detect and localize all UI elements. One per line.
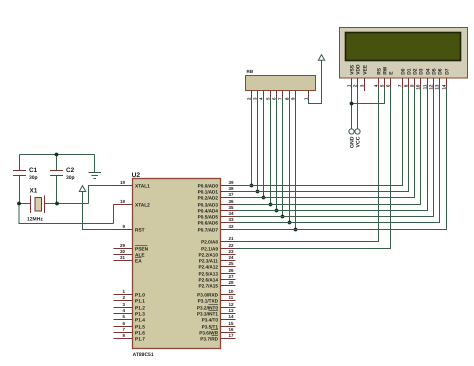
svg-text:30p: 30p xyxy=(29,175,38,181)
wire respack common to VCC xyxy=(309,60,322,103)
svg-text:P2.7/A15: P2.7/A15 xyxy=(198,283,218,288)
resistor pack RB xyxy=(246,76,316,91)
svg-text:12: 12 xyxy=(428,84,433,90)
svg-text:31: 31 xyxy=(120,255,126,260)
node respack pin 6 / P0.4 xyxy=(275,209,279,213)
crystal X1 xyxy=(27,188,45,223)
wire C2 stems xyxy=(56,155,58,171)
svg-text:C1: C1 xyxy=(29,167,38,174)
LCD screen xyxy=(346,33,461,61)
wire XTAL1 route xyxy=(89,186,114,204)
wire VSS to GND terminal xyxy=(351,88,353,129)
svg-text:11: 11 xyxy=(229,295,234,300)
chip left pin numbers xyxy=(120,180,126,338)
svg-text:13: 13 xyxy=(434,84,439,90)
svg-text:16: 16 xyxy=(229,327,235,332)
microcontroller U2 AT89C51 xyxy=(133,179,221,349)
svg-text:10: 10 xyxy=(415,84,420,90)
svg-text:D1: D1 xyxy=(406,68,412,75)
svg-text:P3.0/RXD: P3.0/RXD xyxy=(197,292,218,297)
svg-text:7: 7 xyxy=(397,84,402,87)
svg-text:P3.4/T0: P3.4/T0 xyxy=(202,317,219,322)
svg-text:C2: C2 xyxy=(66,167,75,174)
svg-text:P0.6/AD6: P0.6/AD6 xyxy=(198,220,219,225)
svg-text:P2.6/A14: P2.6/A14 xyxy=(198,277,218,282)
svg-text:37: 37 xyxy=(229,192,235,197)
respack pin numbers xyxy=(246,97,308,100)
svg-text:P0.3/AD3: P0.3/AD3 xyxy=(198,202,219,207)
capacitor C1 xyxy=(13,167,38,181)
svg-text:32: 32 xyxy=(229,224,235,229)
svg-text:D4: D4 xyxy=(425,68,431,75)
svg-text:AT89C51: AT89C51 xyxy=(133,352,154,358)
svg-text:P3.5/T1: P3.5/T1 xyxy=(202,324,219,329)
node C2 top xyxy=(55,153,59,157)
svg-text:14: 14 xyxy=(229,314,235,319)
svg-text:P0.4/AD4: P0.4/AD4 xyxy=(198,208,219,213)
wire C1 stems xyxy=(19,155,21,171)
svg-text:3: 3 xyxy=(359,84,364,87)
svg-text:4: 4 xyxy=(373,84,378,87)
svg-text:13: 13 xyxy=(229,308,235,313)
svg-text:RW: RW xyxy=(382,66,388,74)
svg-text:P2.0/A8: P2.0/A8 xyxy=(201,239,218,244)
svg-text:8: 8 xyxy=(403,84,408,87)
svg-text:D0: D0 xyxy=(400,68,406,75)
svg-text:15: 15 xyxy=(229,321,235,326)
wire RST route xyxy=(83,192,114,230)
respack wires to P0 bus xyxy=(252,60,322,229)
svg-text:12MHz: 12MHz xyxy=(27,217,43,223)
svg-text:25: 25 xyxy=(229,261,235,266)
wire D0 to P0.0 xyxy=(236,88,403,186)
wire D7 to P0.7 xyxy=(236,88,447,230)
svg-text:D3: D3 xyxy=(418,68,424,75)
node respack pin 5 / P0.3 xyxy=(269,203,273,207)
chip left pin stubs xyxy=(114,186,133,339)
svg-text:30: 30 xyxy=(120,249,126,254)
svg-text:P1.6: P1.6 xyxy=(135,330,145,336)
node respack pin 3 / P0.1 xyxy=(256,190,260,194)
svg-text:RB: RB xyxy=(247,69,254,74)
svg-text:RS: RS xyxy=(376,67,382,75)
svg-text:P2.5/A13: P2.5/A13 xyxy=(198,271,218,276)
chip right pin stubs xyxy=(221,186,236,339)
node respack pin 4 / P0.2 xyxy=(262,196,266,200)
power arrow (RST pull-up) xyxy=(79,186,85,192)
svg-text:P3.6/WR: P3.6/WR xyxy=(199,330,218,335)
wire D2 to P0.2 xyxy=(236,88,415,198)
svg-text:P2.4/A12: P2.4/A12 xyxy=(198,264,218,269)
svg-text:RST: RST xyxy=(135,227,145,233)
svg-text:P2.2/A10: P2.2/A10 xyxy=(198,252,218,257)
node crystal right xyxy=(55,202,59,206)
svg-text:35: 35 xyxy=(229,205,235,210)
svg-text:36: 36 xyxy=(229,199,235,204)
svg-text:D5: D5 xyxy=(431,68,437,75)
svg-text:12: 12 xyxy=(229,302,235,307)
svg-text:18: 18 xyxy=(120,199,126,204)
svg-text:VEE: VEE xyxy=(362,64,368,75)
wire XTAL2 route xyxy=(19,204,114,224)
LCD module LM016L body xyxy=(340,28,468,79)
svg-text:29: 29 xyxy=(120,243,126,248)
svg-text:P3.2/INT0: P3.2/INT0 xyxy=(197,305,218,310)
svg-text:14: 14 xyxy=(441,84,446,90)
svg-text:VSS: VSS xyxy=(349,64,355,75)
svg-text:P1.7: P1.7 xyxy=(135,336,145,342)
svg-text:17: 17 xyxy=(229,333,235,338)
svg-text:XTAL1: XTAL1 xyxy=(135,183,150,189)
svg-text:38: 38 xyxy=(229,186,235,191)
node crystal left xyxy=(17,202,21,206)
power arrow (respack VCC) xyxy=(318,55,324,61)
svg-text:23: 23 xyxy=(229,249,235,254)
svg-text:5: 5 xyxy=(379,84,384,87)
wire D5 to P0.5 xyxy=(236,88,434,217)
wire D6 to P0.6 xyxy=(236,88,440,223)
ground xyxy=(89,155,102,179)
svg-text:33: 33 xyxy=(229,217,235,222)
svg-text:11: 11 xyxy=(422,84,427,89)
svg-text:P2.1/A9: P2.1/A9 xyxy=(201,246,218,251)
wire D4 to P0.4 xyxy=(236,88,428,211)
svg-text:P0.2/AD2: P0.2/AD2 xyxy=(198,195,219,200)
node respack pin 2 / P0.0 xyxy=(250,184,254,188)
chip right pin numbers xyxy=(229,180,235,338)
svg-text:P1.1: P1.1 xyxy=(135,298,145,304)
svg-text:6: 6 xyxy=(385,84,390,87)
svg-text:P3.3/INT1: P3.3/INT1 xyxy=(197,311,218,316)
svg-text:9: 9 xyxy=(409,84,414,87)
node respack pin 7 / P0.5 xyxy=(281,215,285,219)
svg-text:26: 26 xyxy=(229,268,235,273)
capacitor C2 xyxy=(50,167,75,181)
node RW/VSS junction xyxy=(350,102,354,106)
svg-text:VCC: VCC xyxy=(356,136,362,147)
wire D1 to P0.1 xyxy=(236,88,409,192)
terminal GND xyxy=(349,129,356,148)
svg-text:P0.0/AD0: P0.0/AD0 xyxy=(198,183,219,188)
terminal VCC xyxy=(355,129,362,148)
wire top rail xyxy=(20,154,95,156)
svg-text:D6: D6 xyxy=(437,68,443,75)
svg-text:P1.2: P1.2 xyxy=(135,305,145,311)
svg-text:EA: EA xyxy=(135,258,142,264)
svg-text:1: 1 xyxy=(346,84,351,87)
LCD pin numbers xyxy=(346,84,446,90)
svg-text:28: 28 xyxy=(229,280,235,285)
svg-text:U2: U2 xyxy=(132,172,141,179)
wire RS to P2.0 xyxy=(236,88,379,242)
wire crystal row xyxy=(19,203,31,205)
svg-text:24: 24 xyxy=(229,255,235,260)
wire D3 to P0.3 xyxy=(236,88,421,205)
LCD wires xyxy=(236,88,447,249)
svg-text:P1.5: P1.5 xyxy=(135,324,145,330)
svg-text:34: 34 xyxy=(229,211,235,216)
svg-text:P3.1/TXD: P3.1/TXD xyxy=(198,298,219,303)
svg-text:P0.5/AD5: P0.5/AD5 xyxy=(198,214,219,219)
respack pin stubs xyxy=(252,91,309,98)
node respack pin 8 / P0.6 xyxy=(288,221,292,225)
svg-text:27: 27 xyxy=(229,274,235,279)
svg-text:P1.3: P1.3 xyxy=(135,311,145,317)
svg-text:19: 19 xyxy=(120,180,126,185)
chip left pin names xyxy=(135,183,150,342)
svg-text:22: 22 xyxy=(229,243,235,248)
svg-text:P1.4: P1.4 xyxy=(135,317,145,323)
svg-text:P3.7/RD: P3.7/RD xyxy=(200,336,218,341)
svg-text:XTAL2: XTAL2 xyxy=(135,202,150,208)
LCD pin names xyxy=(349,64,450,75)
LCD pin stubs xyxy=(352,78,447,91)
svg-text:30p: 30p xyxy=(66,175,75,181)
svg-text:P2.3/A11: P2.3/A11 xyxy=(199,258,219,263)
svg-text:D7: D7 xyxy=(444,68,450,75)
chip right pin names xyxy=(197,183,219,341)
overlines PSEN EA xyxy=(135,246,148,258)
overlines INT0 INT1 WR RD xyxy=(209,305,219,336)
svg-text:2: 2 xyxy=(352,84,357,87)
svg-text:P1.0: P1.0 xyxy=(135,292,145,298)
wire E to P2.1 xyxy=(236,88,391,249)
wire VDD to VCC terminal xyxy=(357,88,359,129)
wire RW to ground rail xyxy=(352,88,385,104)
svg-text:39: 39 xyxy=(229,180,235,185)
svg-text:P0.1/AD1: P0.1/AD1 xyxy=(198,189,219,194)
svg-text:PSEN: PSEN xyxy=(135,246,149,252)
node respack pin 9 / P0.7 xyxy=(294,228,298,232)
svg-text:X1: X1 xyxy=(30,188,38,195)
svg-text:10: 10 xyxy=(229,289,235,294)
svg-text:VDD: VDD xyxy=(355,64,361,75)
svg-text:21: 21 xyxy=(229,236,235,241)
svg-text:P0.7/AD7: P0.7/AD7 xyxy=(198,227,219,232)
svg-text:D2: D2 xyxy=(412,68,418,75)
